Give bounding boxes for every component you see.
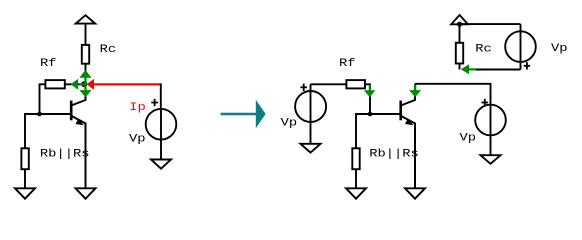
resistor Rc (loop) — [456, 43, 463, 64]
voltage source Vp1 (left circuit) — [146, 109, 177, 140]
ground below Vp1 — [151, 160, 171, 169]
ground below Vp2 — [301, 144, 321, 153]
plus sign Vp4 — [524, 62, 531, 69]
resistor Rf (left) — [45, 80, 64, 88]
transistor Q1 (NPN) — [71, 84, 85, 188]
wire red corner down to source Vp1 — [160, 83, 162, 109]
wire Rb||Rs to ground (right) — [355, 169, 357, 188]
wire Vp3 to ground — [490, 135, 492, 155]
svg-text:Vp: Vp — [551, 42, 568, 54]
svg-text:Vp: Vp — [460, 132, 477, 144]
wire Rb||Rs to ground — [24, 169, 26, 188]
voltage source Vp2 (right circuit input) — [295, 84, 326, 144]
ground below Rb||Rs (left) — [15, 188, 35, 198]
voltage source Vp3 (right circuit output) — [475, 105, 506, 136]
green current arrow up into Rc — [79, 78, 85, 91]
node dot (loop top-left) — [457, 22, 462, 27]
ground below emitter Q1 — [76, 188, 96, 198]
green current arrow into Rc branch (left) — [469, 68, 477, 70]
ground below Vp3 — [481, 155, 501, 164]
svg-text:Vp: Vp — [129, 133, 146, 145]
wire Rc (loop) leads — [459, 24, 461, 43]
power arrow V+ top left — [76, 15, 96, 45]
plus sign Vp2 — [300, 84, 307, 91]
collector top wire to Vp3 — [415, 84, 491, 105]
wire Rf left lead down to base rail — [40, 84, 46, 114]
green current arrow through Rf branch (down) — [369, 85, 371, 91]
power arrow V+ (loop) — [451, 15, 468, 24]
base wire — [25, 114, 70, 148]
wire Vp1 to ground — [160, 140, 162, 160]
red arrowhead Ip into node (left) — [87, 79, 95, 90]
svg-text:Rb||Rs: Rb||Rs — [40, 148, 90, 160]
red test current wire Ip — [94, 83, 161, 85]
transistor Q2 (NPN) — [401, 84, 415, 189]
green current arrow left into Rf — [71, 79, 78, 90]
svg-text:Rf: Rf — [40, 57, 57, 69]
node dot at base junction (right) — [368, 112, 373, 117]
resistor Rb||Rs (right) — [352, 148, 359, 169]
resistor Rf (right) — [346, 80, 365, 88]
voltage source Vp4 (loop) — [505, 24, 536, 69]
svg-text:Rc: Rc — [475, 43, 492, 55]
node dot at current summing junction — [81, 81, 87, 87]
wire Rc to node — [85, 64, 87, 85]
plus sign Vp1 — [151, 99, 158, 106]
loop bottom wire — [476, 69, 521, 71]
wire Rf right lead to node — [65, 83, 86, 85]
resistor Rc (left) — [82, 45, 89, 64]
ground below Rb||Rs (right) — [346, 188, 366, 198]
loop top wire — [460, 23, 521, 25]
wire Rf to base node — [365, 84, 370, 114]
ground below emitter Q2 — [405, 188, 425, 198]
svg-text:Rf: Rf — [339, 57, 356, 69]
green current arrow down into collector — [79, 90, 91, 97]
svg-text:Vp: Vp — [281, 117, 298, 129]
node dot at Rf/base junction — [37, 112, 42, 117]
resistor Rb||Rs (left) — [21, 148, 28, 169]
green current arrow into collector (down) — [414, 84, 416, 90]
wire Vp2 top to Rf — [311, 83, 347, 85]
svg-text:Ip: Ip — [129, 101, 146, 113]
svg-text:Rb||Rs: Rb||Rs — [369, 148, 419, 160]
base wire (right) — [356, 114, 401, 148]
svg-text:Rc: Rc — [100, 43, 117, 55]
plus sign Vp3 — [482, 99, 489, 106]
